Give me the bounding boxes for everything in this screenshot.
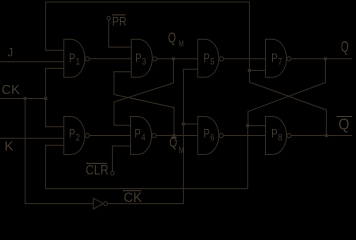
gate P1 body [64, 39, 85, 77]
wire bottom rail Q feedback to P2 [46, 126, 248, 189]
svg-text:8: 8 [278, 133, 282, 143]
svg-text:Q: Q [338, 117, 349, 134]
wire CK branch to P1 lower input [46, 68, 64, 126]
svg-text:Q: Q [168, 30, 176, 46]
wire P8 output to Qbar [291, 135, 352, 137]
svg-text:P: P [204, 51, 210, 65]
wire P2 output to P4 [90, 135, 131, 137]
wire QM cross to P4 [114, 59, 173, 125]
wire CK down to inverter [25, 99, 93, 204]
svg-text:Q: Q [341, 39, 349, 56]
svg-text:4: 4 [141, 133, 145, 143]
svg-text:1: 1 [76, 57, 80, 67]
node dot CK branch 1 [23, 97, 27, 101]
svg-text:P: P [271, 127, 277, 141]
svg-text:K: K [5, 140, 15, 154]
gate P6 body [198, 117, 219, 155]
svg-text:5: 5 [210, 57, 214, 67]
wire P5 output to P7 [224, 58, 266, 60]
svg-text:CK: CK [2, 83, 21, 97]
wire J input [0, 61, 64, 63]
gate P7 body [266, 39, 287, 77]
wire PR down to P3 [109, 20, 132, 47]
wire Qbar cross to P7 [249, 70, 326, 135]
node dot Q [324, 57, 328, 61]
svg-text:7: 7 [278, 57, 282, 67]
wire Q cross to P8 [248, 59, 325, 126]
gate P2 body [64, 117, 85, 155]
svg-text:P: P [135, 51, 141, 65]
gate P3 body [131, 39, 152, 77]
svg-text:6: 6 [210, 133, 214, 143]
node dot Q to P8 [246, 124, 250, 128]
node dot CKbar to P6 [182, 122, 186, 126]
gate P5 body [198, 39, 219, 77]
wire K input [0, 137, 64, 139]
wire P6 output to P8 [224, 135, 266, 137]
wire top rail Qbar feedback to P1 [46, 2, 250, 70]
svg-text:P: P [204, 127, 210, 141]
node dot QMbar [172, 134, 176, 138]
svg-text:P: P [135, 127, 141, 141]
wire P3 output QM to P5 [157, 58, 198, 60]
svg-text:P: P [69, 127, 75, 141]
node dot Qbar to P7 [248, 69, 252, 73]
terminal PR circle [107, 16, 111, 20]
gate P8 body [266, 117, 287, 155]
wire CK input [0, 98, 46, 100]
terminal CLR circle [111, 171, 115, 175]
svg-text:J: J [8, 45, 14, 59]
node dot QM [172, 57, 176, 61]
svg-text:M: M [179, 146, 185, 155]
op-amp U0 inverter CK [93, 198, 103, 209]
wire CLR up to P4 [112, 146, 130, 171]
svg-text:CLR: CLR [86, 163, 109, 178]
node dot Qbar [325, 134, 329, 138]
node dot CK branch 2 [44, 97, 48, 101]
svg-text:PR: PR [112, 17, 127, 29]
wire CKbar from inverter to P5 and P6 [108, 69, 198, 203]
wire QMbar cross to P3 [114, 72, 174, 136]
gate P4 body [131, 117, 152, 155]
svg-text:2: 2 [76, 133, 80, 143]
wire CKbar stub into P6 [183, 123, 197, 125]
wire P4 output QMbar to P6 [157, 135, 198, 137]
svg-text:3: 3 [142, 57, 146, 67]
wire Qbar stub into P7 [249, 69, 265, 71]
wire P1 output to P3 [90, 58, 132, 60]
svg-text:CK: CK [124, 190, 142, 205]
svg-text:P: P [69, 51, 75, 65]
svg-text:P: P [271, 51, 277, 65]
wire Q cross stub into P8 [248, 125, 266, 127]
svg-text:M: M [179, 39, 184, 48]
wire P7 output to Q [291, 58, 352, 60]
